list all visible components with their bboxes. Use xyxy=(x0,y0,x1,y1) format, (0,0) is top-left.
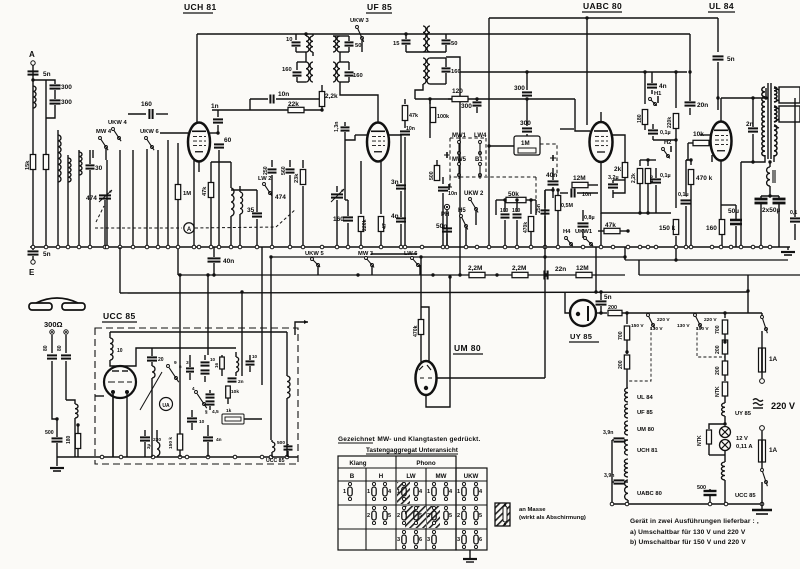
coil ucc b xyxy=(152,366,155,457)
svg-text:50: 50 xyxy=(451,41,457,47)
capacitor 2n ucc xyxy=(228,378,244,385)
wire UL screen xyxy=(711,155,713,162)
capacitor 0,1u b xyxy=(651,168,671,213)
hatch LW row2 xyxy=(405,506,426,528)
switch LW2 xyxy=(258,176,272,196)
wire arrow out xyxy=(295,320,308,335)
wire UABC af xyxy=(601,180,671,247)
coil antenna xyxy=(33,86,36,108)
svg-text:200: 200 xyxy=(618,360,624,369)
capacitor 0,1 edge xyxy=(790,98,800,240)
svg-text:700: 700 xyxy=(618,331,624,340)
wire UM plate xyxy=(436,377,545,379)
svg-text:6: 6 xyxy=(419,537,422,543)
svg-text:NTK: NTK xyxy=(715,386,721,397)
svg-text:b) Umschaltbar für 150 V un: b) Umschaltbar für 150 V und 220 V xyxy=(630,539,746,546)
label B1 xyxy=(475,157,483,163)
svg-text:3,9n: 3,9n xyxy=(603,430,613,436)
svg-text:120: 120 xyxy=(452,88,463,95)
terminal E xyxy=(29,247,35,277)
svg-text:180: 180 xyxy=(66,435,72,444)
svg-text:50n: 50n xyxy=(436,223,447,230)
capacitor 5n UL xyxy=(713,18,735,98)
svg-text:47k: 47k xyxy=(202,186,208,196)
svg-text:A: A xyxy=(29,50,35,59)
capacitor 500 ps xyxy=(697,485,717,495)
svg-text:3: 3 xyxy=(427,537,430,543)
wire xyxy=(110,348,152,366)
switch H5 xyxy=(458,208,468,247)
capacitor 500 ph xyxy=(45,417,63,457)
svg-text:60: 60 xyxy=(224,137,232,144)
switch H4 xyxy=(565,237,573,247)
resistor 10k ucc xyxy=(226,386,240,404)
capacitor 10 IF1 xyxy=(286,37,301,52)
resistor 700 a xyxy=(618,313,630,354)
switch UKW6 xyxy=(140,129,159,150)
wire xyxy=(428,97,431,138)
wire tube left xyxy=(95,395,104,397)
wire xyxy=(167,140,169,247)
resistor 500 det xyxy=(429,160,440,181)
label 220V xyxy=(753,399,796,411)
capacitor 160 UF xyxy=(333,200,353,247)
svg-text:UM 80: UM 80 xyxy=(637,427,654,433)
capacitor 10n det xyxy=(438,177,457,247)
label ucc85 small xyxy=(266,458,285,464)
switch ucc osc xyxy=(167,360,183,382)
label UF 85 xyxy=(366,2,392,13)
svg-text:0,11 A: 0,11 A xyxy=(736,444,753,450)
wire top line y18 xyxy=(489,17,718,19)
resistor 2,2M b xyxy=(512,265,528,278)
svg-text:500: 500 xyxy=(429,171,435,180)
svg-text:5n: 5n xyxy=(43,251,51,258)
svg-text:4: 4 xyxy=(419,489,423,495)
wire xyxy=(244,418,262,420)
wire switch row xyxy=(318,254,435,277)
svg-text:30: 30 xyxy=(95,165,103,172)
switch 220V b xyxy=(677,314,717,333)
svg-text:300: 300 xyxy=(61,84,72,91)
svg-text:12 V: 12 V xyxy=(736,436,748,442)
wire grid lines xyxy=(575,16,590,131)
svg-text:0,5M: 0,5M xyxy=(561,203,573,209)
dashed gang line xyxy=(95,206,182,228)
capacitor 0,1u a xyxy=(648,124,671,140)
svg-text:1: 1 xyxy=(397,489,400,495)
svg-text:180: 180 xyxy=(637,114,643,123)
svg-text:23k: 23k xyxy=(294,173,300,183)
svg-text:an Masse: an Masse xyxy=(519,507,546,513)
wire heater caps xyxy=(612,440,614,504)
svg-text:2,2M: 2,2M xyxy=(512,265,526,272)
resistor 12M row xyxy=(576,265,592,278)
switch H1 xyxy=(649,91,663,106)
svg-text:474: 474 xyxy=(86,195,97,202)
capacitor 3 ucc xyxy=(186,355,194,380)
svg-text:n: n xyxy=(179,364,182,369)
svg-text:160: 160 xyxy=(706,225,717,232)
wire xyxy=(45,80,47,247)
svg-text:300: 300 xyxy=(461,103,472,110)
svg-text:LW 2: LW 2 xyxy=(258,176,272,182)
svg-text:1M: 1M xyxy=(183,191,191,197)
svg-text:UL 84: UL 84 xyxy=(709,1,734,11)
svg-text:UKW 5: UKW 5 xyxy=(305,251,324,257)
wire xyxy=(545,188,555,191)
svg-text:0,1µ: 0,1µ xyxy=(660,130,671,136)
wire plate xyxy=(196,34,198,122)
capacitor 3,2u xyxy=(608,175,625,198)
label UY 85 xyxy=(569,332,599,342)
wire x690 drop xyxy=(689,34,691,101)
capacitor 4n ucc xyxy=(203,425,222,457)
capacitor 160 IF4 xyxy=(430,58,461,84)
resistor 47k UCH xyxy=(202,162,214,247)
wire xyxy=(458,155,460,162)
svg-text:160: 160 xyxy=(141,101,152,108)
svg-text:UY 85: UY 85 xyxy=(735,411,752,417)
resistor 2k xyxy=(614,163,628,186)
svg-text:4,5: 4,5 xyxy=(212,409,219,415)
svg-text:2: 2 xyxy=(457,513,460,519)
hatch MW row2 xyxy=(427,506,440,528)
svg-text:12M: 12M xyxy=(576,265,589,272)
switch mains a xyxy=(761,313,768,333)
wire right rail 275 xyxy=(639,274,800,276)
fuse 1A b xyxy=(759,431,778,462)
svg-text:0,1: 0,1 xyxy=(790,210,797,216)
wire UY loop xyxy=(565,292,570,313)
wire xyxy=(686,143,688,160)
svg-text:2k: 2k xyxy=(614,166,622,173)
wire xyxy=(146,149,148,247)
heater UF85 xyxy=(625,404,654,418)
coupling mark det xyxy=(446,184,452,190)
table frame xyxy=(338,456,487,550)
resistor 150k xyxy=(659,168,679,260)
resistor 0,5M xyxy=(555,188,573,247)
wire xyxy=(126,394,128,457)
svg-text:1: 1 xyxy=(427,489,430,495)
svg-text:UKW 3: UKW 3 xyxy=(350,18,369,24)
coil ucc low xyxy=(146,430,160,456)
wire antenna xyxy=(32,65,34,247)
wire x178 drop xyxy=(177,247,179,275)
box 1M oscillator xyxy=(514,136,540,155)
svg-text:150 k: 150 k xyxy=(168,437,174,449)
svg-text:10n: 10n xyxy=(448,191,457,197)
svg-text:12M: 12M xyxy=(573,175,586,182)
wire UL plate top xyxy=(721,98,766,121)
coupling mark right xyxy=(550,155,556,161)
capacitor 300 a xyxy=(50,84,73,91)
wire xyxy=(51,335,53,353)
wire xyxy=(764,88,767,100)
capacitor 4n top xyxy=(647,72,667,94)
coil input 2 xyxy=(68,158,71,182)
svg-text:2: 2 xyxy=(367,513,370,519)
label 12V xyxy=(736,436,753,450)
svg-text:UCC 85: UCC 85 xyxy=(735,493,756,499)
capacitor 50 IF3 xyxy=(406,34,457,52)
ground right xyxy=(779,226,795,255)
coil input 1 xyxy=(58,135,61,182)
wire x596 drop xyxy=(594,247,597,294)
resistor 10k UL xyxy=(688,131,712,146)
capacitor 40n row xyxy=(208,247,235,277)
svg-text:5n: 5n xyxy=(727,56,735,63)
svg-text:4n: 4n xyxy=(216,437,222,443)
svg-text:2,2k: 2,2k xyxy=(325,93,338,100)
svg-text:1M: 1M xyxy=(521,140,530,147)
note b) xyxy=(630,539,746,546)
coil ucc right xyxy=(287,370,290,457)
resistor NTK a xyxy=(715,382,728,403)
resistor 15k xyxy=(25,155,36,171)
capacitor 10 ucc r xyxy=(246,354,258,372)
svg-text:UM 80: UM 80 xyxy=(454,343,481,353)
wire grid line xyxy=(160,132,188,134)
wire xyxy=(296,34,313,56)
capacitor 35 xyxy=(247,190,262,247)
capacitor 40n mid xyxy=(546,170,559,198)
bus dots2 xyxy=(458,255,677,276)
capacitor 160 coupling xyxy=(128,101,168,119)
wire xyxy=(210,131,220,134)
tube UF85 U2 xyxy=(367,123,389,162)
svg-text:160: 160 xyxy=(353,73,363,79)
capacitor 3,9n a xyxy=(603,430,625,442)
wire xyxy=(627,500,629,504)
svg-text:PH: PH xyxy=(441,212,449,218)
svg-text:Phono: Phono xyxy=(416,460,435,467)
svg-text:4: 4 xyxy=(388,489,392,495)
resistor 700 b xyxy=(715,311,728,340)
capacitor 5n antenna xyxy=(28,71,51,78)
resistor 2,2k xyxy=(319,85,338,112)
svg-text:5n: 5n xyxy=(43,71,51,78)
svg-text:50µ: 50µ xyxy=(728,208,739,215)
ucc bus dots xyxy=(100,455,289,459)
table header H xyxy=(379,473,384,480)
switch LW6 xyxy=(404,251,420,267)
svg-text:150 V: 150 V xyxy=(631,323,644,329)
wire xyxy=(57,130,59,247)
wire 40n node xyxy=(553,168,575,170)
svg-text:1k: 1k xyxy=(226,408,232,414)
wire OT bottom xyxy=(741,155,774,162)
capacitor 2n OT xyxy=(746,96,758,163)
svg-text:47k: 47k xyxy=(605,222,616,229)
svg-text:a) Umschaltbar für 130 V un: a) Umschaltbar für 130 V und 220 V xyxy=(630,529,746,536)
dashed box UCC85 xyxy=(95,328,298,464)
wire UL grid xyxy=(700,96,720,135)
switch UKW3 xyxy=(350,18,369,52)
wire lamp top xyxy=(709,416,727,429)
svg-text:Klang: Klang xyxy=(349,460,366,467)
wire to UF85 grid xyxy=(340,82,378,122)
svg-text:Tastengaggregat Unteransicht: Tastengaggregat Unteransicht xyxy=(366,447,459,454)
wire 50k loop xyxy=(496,200,536,215)
svg-text:10n: 10n xyxy=(406,126,415,132)
capacitor 230 xyxy=(140,430,161,457)
svg-text:UKW: UKW xyxy=(464,473,479,480)
caps cluster ucc xyxy=(201,355,216,382)
coil ucc top xyxy=(110,332,123,365)
svg-text:47k: 47k xyxy=(409,113,418,119)
svg-text:22k: 22k xyxy=(288,101,299,108)
label MW1 xyxy=(452,133,467,139)
wire speaker links xyxy=(774,88,779,128)
svg-text:H: H xyxy=(379,473,384,480)
svg-text:3µ: 3µ xyxy=(146,444,151,449)
wire UF plate xyxy=(389,135,401,175)
resistor 220k UF xyxy=(358,161,368,247)
capacitor 160 IF2b xyxy=(340,62,363,82)
switch B1 xyxy=(479,163,482,179)
capacitor 10n b xyxy=(560,189,598,199)
wire main chassis bus xyxy=(30,246,744,248)
terminal PH xyxy=(441,204,450,218)
svg-text:3,9n: 3,9n xyxy=(604,473,614,479)
svg-text:560: 560 xyxy=(281,166,287,175)
terminal A xyxy=(29,50,35,65)
capacitor 250 xyxy=(263,160,277,247)
choke xyxy=(767,160,775,196)
capacitor 60 xyxy=(214,137,232,247)
svg-text:470 k: 470 k xyxy=(696,175,713,182)
capacitor 2x50u a xyxy=(755,196,768,247)
svg-text:150 k: 150 k xyxy=(659,225,676,232)
wire x545 feed xyxy=(544,190,546,378)
tube UCC85 U6 xyxy=(104,366,136,398)
wire vertical x625 xyxy=(624,247,626,260)
box 1k ucc xyxy=(222,408,244,424)
svg-text:470k: 470k xyxy=(523,222,529,233)
svg-text:500: 500 xyxy=(45,430,54,436)
label UM 80 xyxy=(453,343,483,354)
svg-text:80: 80 xyxy=(57,345,63,351)
resistor 200 UY xyxy=(608,305,744,316)
svg-text:250: 250 xyxy=(263,166,269,175)
svg-text:300: 300 xyxy=(61,99,72,106)
coil osc 2 xyxy=(240,186,243,247)
switch H2 xyxy=(662,140,672,158)
coil input 3 xyxy=(79,152,82,175)
svg-text:1: 1 xyxy=(457,489,460,495)
coil IF3 primary xyxy=(423,26,430,52)
wire xyxy=(92,150,94,158)
coil primary OT xyxy=(762,87,765,156)
wire IF1 top xyxy=(296,32,308,40)
label 4,5 xyxy=(205,409,219,415)
wire xyxy=(624,481,628,483)
dashed long xyxy=(450,177,536,199)
svg-text:16: 16 xyxy=(214,362,219,368)
resistor 23k xyxy=(294,160,306,247)
wire vertical x748 xyxy=(746,275,749,313)
svg-text:160: 160 xyxy=(333,216,344,223)
resistor 180 af xyxy=(637,70,648,130)
dashed switch a xyxy=(629,327,651,381)
coil secondary OT a xyxy=(774,87,777,102)
wire ph bus xyxy=(57,456,95,458)
table header UKW xyxy=(464,473,479,480)
wire IF1 link xyxy=(306,52,340,62)
svg-text:100: 100 xyxy=(500,208,509,214)
svg-text:4: 4 xyxy=(192,386,195,391)
svg-text:0,1µ: 0,1µ xyxy=(678,192,689,198)
resistor 50k xyxy=(496,191,536,203)
wire cathode down xyxy=(601,163,625,193)
wire xyxy=(596,311,607,314)
wire xyxy=(78,150,80,247)
svg-text:Gezeichnet: Gezeichnet xyxy=(338,436,375,443)
wire xyxy=(198,162,200,172)
caps cluster 2 xyxy=(206,390,215,410)
lamp a xyxy=(720,427,731,438)
svg-text:300: 300 xyxy=(520,120,531,127)
svg-text:10: 10 xyxy=(117,348,123,354)
svg-text:150 V: 150 V xyxy=(696,326,709,332)
note a) xyxy=(630,529,746,536)
tube UM80 U5 xyxy=(416,361,437,395)
wire osc top xyxy=(211,162,257,190)
wire xyxy=(54,90,56,99)
svg-text:2: 2 xyxy=(397,513,400,519)
dashed gang line 2 xyxy=(195,209,296,228)
capacitor 0,1u c xyxy=(678,160,692,247)
table header LW xyxy=(406,473,415,480)
capacitor 100 a xyxy=(500,198,510,247)
svg-text:50: 50 xyxy=(355,43,361,49)
label UABC 80 xyxy=(582,1,622,12)
capacitor 300 agc xyxy=(461,97,482,113)
speaker box b xyxy=(779,106,800,122)
wire vertical x639 xyxy=(638,260,640,275)
resistor 200 b xyxy=(715,340,728,361)
capacitor 20 ucc xyxy=(147,348,164,366)
svg-text:47: 47 xyxy=(382,223,388,229)
switch UKW2 xyxy=(469,198,479,226)
capacitor 2x50u b xyxy=(762,196,786,226)
svg-text:20n: 20n xyxy=(697,102,708,109)
ground mains xyxy=(752,504,772,514)
switch MW5 xyxy=(458,163,461,179)
capacitor 25n xyxy=(536,190,550,247)
resistor 2,2k af b xyxy=(645,160,654,215)
svg-text:MW: MW xyxy=(436,473,447,480)
svg-text:0,8µ: 0,8µ xyxy=(584,215,595,221)
coil barretter xyxy=(624,459,628,477)
switch MW1 xyxy=(458,141,461,157)
svg-text:1: 1 xyxy=(367,489,370,495)
svg-text:(wirkt als Abschirmung): (wirkt als Abschirmung) xyxy=(519,515,586,521)
svg-text:2: 2 xyxy=(427,513,430,519)
resistor input xyxy=(43,155,48,170)
tube UL84 U4 xyxy=(711,122,732,161)
wire AGC line y99 xyxy=(415,98,575,100)
wire xyxy=(119,150,121,247)
svg-text:2,2M: 2,2M xyxy=(468,265,482,272)
wire xyxy=(67,155,69,247)
svg-text:10k: 10k xyxy=(231,389,239,395)
wire main bus right xyxy=(744,246,790,248)
coil 500 ucc xyxy=(272,440,285,457)
svg-text:220k: 220k xyxy=(362,219,368,231)
